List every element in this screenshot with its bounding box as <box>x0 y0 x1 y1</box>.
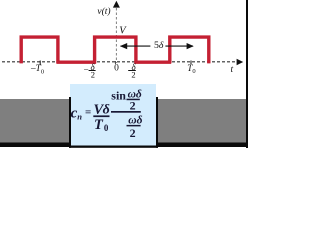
svg-text:−: − <box>84 64 89 74</box>
svg-text:2: 2 <box>91 70 95 80</box>
svg-text:2: 2 <box>130 99 136 113</box>
svg-text:5δ: 5δ <box>154 40 164 51</box>
svg-text:sin: sin <box>111 89 126 103</box>
svg-text:n: n <box>77 111 82 121</box>
svg-text:2: 2 <box>130 126 136 140</box>
svg-text:2: 2 <box>131 70 135 80</box>
svg-text:=: = <box>85 106 91 118</box>
svg-text:t: t <box>231 65 234 75</box>
svg-text:ωδ: ωδ <box>128 114 142 126</box>
svg-text:δ: δ <box>103 103 110 118</box>
svg-text:0: 0 <box>104 123 109 133</box>
svg-text:v(t): v(t) <box>97 6 110 17</box>
svg-text:0: 0 <box>114 64 119 74</box>
svg-text:T: T <box>94 117 104 133</box>
